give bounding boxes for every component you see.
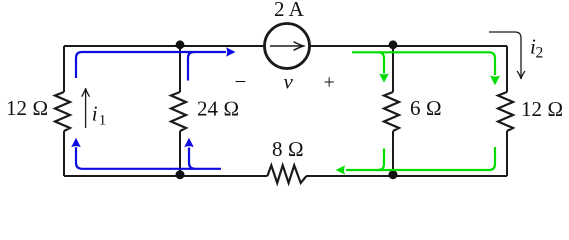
svg-text:v: v [284, 70, 294, 94]
svg-text:−: − [235, 70, 247, 94]
svg-text:12 Ω: 12 Ω [521, 97, 563, 121]
svg-text:6 Ω: 6 Ω [410, 96, 442, 120]
svg-text:24 Ω: 24 Ω [197, 97, 239, 121]
svg-text:12 Ω: 12 Ω [6, 96, 48, 120]
svg-text:+: + [324, 72, 335, 94]
svg-text:2 A: 2 A [274, 0, 305, 21]
svg-text:8 Ω: 8 Ω [272, 137, 304, 161]
svg-text:1: 1 [99, 113, 107, 129]
svg-text:2: 2 [536, 45, 544, 62]
svg-text:i: i [92, 102, 98, 126]
